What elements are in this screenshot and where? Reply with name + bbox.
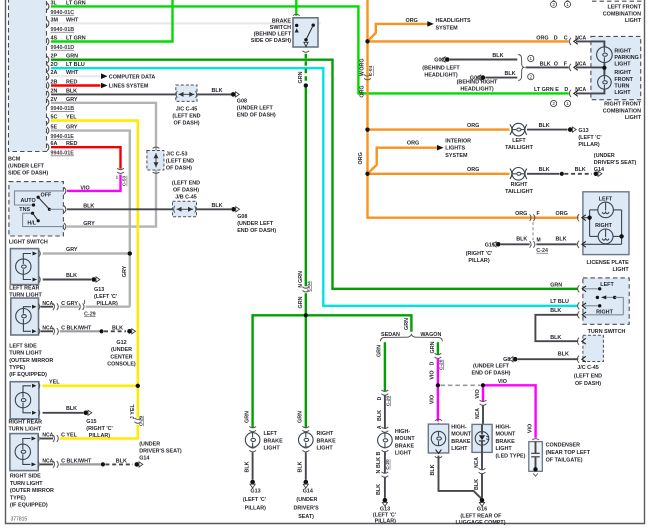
svg-text:CONSOLE): CONSOLE) <box>107 361 136 367</box>
junction dots overlay <box>365 39 369 43</box>
junction dot parking/turn <box>602 66 606 70</box>
svg-text:BCM: BCM <box>8 157 21 163</box>
svg-text:(LEFT END: (LEFT END <box>172 181 200 187</box>
svg-text:N BLK B: N BLK B <box>376 451 382 473</box>
wire 2A WHT to computer data lines <box>51 75 101 77</box>
svg-text:VIO: VIO <box>475 389 481 398</box>
svg-text:OFF: OFF <box>41 193 52 199</box>
svg-text:G14: G14 <box>303 489 313 495</box>
dashed link wagon to LED <box>440 384 480 386</box>
connector C-04 on ORG (W) <box>364 75 371 77</box>
svg-text:SWITCH: SWITCH <box>270 25 291 31</box>
svg-text:BLK: BLK <box>298 461 304 472</box>
svg-text:SIDE OF DASH): SIDE OF DASH) <box>8 171 48 177</box>
svg-text:C YEL: C YEL <box>61 433 77 439</box>
junction connector J/C C-45 (left end of dash) <box>176 85 197 101</box>
dashed BLK to G14 <box>564 173 592 175</box>
wire BLK wagon to G16 <box>439 456 483 500</box>
junction connector J/B C-45 (left end of dash) <box>173 201 197 217</box>
wire 3L LT GRN to right front turn light <box>51 6 569 93</box>
svg-text:LIGHT: LIGHT <box>451 446 468 452</box>
svg-text:9940-01C: 9940-01C <box>51 10 75 16</box>
svg-text:H/L: H/L <box>27 220 36 226</box>
svg-text:F: F <box>537 211 540 217</box>
svg-text:LINES SYSTEM: LINES SYSTEM <box>109 84 149 90</box>
left side turn light box <box>11 298 39 335</box>
wire ORG main vertical <box>368 0 579 218</box>
svg-text:COMPUTER DATA: COMPUTER DATA <box>109 74 156 80</box>
svg-text:N: N <box>298 284 304 288</box>
wire BLK LED to G16 <box>481 452 483 469</box>
svg-text:(IF EQUIPPED): (IF EQUIPPED) <box>9 372 47 378</box>
svg-text:C-29: C-29 <box>138 415 144 426</box>
svg-text:NCA: NCA <box>474 457 480 468</box>
svg-text:BRAKE: BRAKE <box>451 439 471 445</box>
svg-text:BRAKE: BRAKE <box>264 438 284 444</box>
junction dot license BLK <box>620 234 624 238</box>
circled 2 below box <box>551 100 557 106</box>
svg-text:LEFT: LEFT <box>264 431 278 437</box>
svg-text:G12: G12 <box>116 340 126 346</box>
svg-text:ORG: ORG <box>359 58 365 70</box>
svg-text:LEFT FRONT: LEFT FRONT <box>607 5 641 11</box>
ground G14 right brake <box>304 480 309 485</box>
wire C YEL right side turn light <box>40 438 53 440</box>
brake switch connector bottom <box>302 51 309 52</box>
svg-text:GRN: GRN <box>404 318 410 330</box>
svg-text:CENTER: CENTER <box>110 354 132 360</box>
svg-text:NCA,: NCA, <box>42 301 55 307</box>
condenser box <box>529 442 543 472</box>
sedan/wagon brace <box>380 334 442 341</box>
wire BLK sedan to bulb <box>384 395 386 429</box>
svg-text:1: 1 <box>530 56 533 61</box>
svg-text:C-24: C-24 <box>536 248 548 254</box>
wire BLK to right parking light <box>526 66 569 68</box>
svg-text:2: 2 <box>552 101 555 106</box>
svg-text:RIGHT: RIGHT <box>511 182 528 188</box>
svg-text:LIGHT: LIGHT <box>264 446 281 452</box>
svg-text:END OF DASH): END OF DASH) <box>237 228 276 234</box>
svg-text:(UNDER LEFT: (UNDER LEFT <box>237 106 274 112</box>
ground G16 (left rear of luggage compt) <box>480 498 485 503</box>
svg-text:LIGHTS: LIGHTS <box>445 146 465 152</box>
svg-text:BLK: BLK <box>66 273 77 279</box>
ground G13 (left C pillar) sedan <box>383 498 388 503</box>
wire GRN brake feed down <box>305 86 307 287</box>
svg-text:2: 2 <box>552 2 555 7</box>
svg-text:END OF DASH): END OF DASH) <box>237 113 276 119</box>
svg-text:(UNDER: (UNDER <box>139 442 160 448</box>
wire VIO to light switch <box>67 175 121 191</box>
circled 1 below box <box>564 100 570 106</box>
turn switch BLK entry <box>578 311 580 318</box>
wire C GRY with connector C-29 <box>41 306 54 308</box>
svg-text:D: D <box>554 35 558 41</box>
LED high-mount brake light box <box>472 424 492 452</box>
svg-text:OF DASH): OF DASH) <box>575 381 601 387</box>
svg-text:RIGHT: RIGHT <box>317 431 334 437</box>
svg-text:GRN: GRN <box>298 271 304 283</box>
condenser connector top <box>532 439 539 440</box>
svg-text:BLK: BLK <box>550 308 561 314</box>
BCM pin 4S (LT GRN) <box>47 38 49 45</box>
svg-text:BLK: BLK <box>550 335 561 341</box>
license plate light box <box>583 192 629 255</box>
svg-text:OF DASH): OF DASH) <box>173 188 199 194</box>
ground G14 (under drivers seat) taillight <box>594 172 599 177</box>
svg-text:(UNDER: (UNDER <box>296 497 317 503</box>
svg-text:J/C C-45: J/C C-45 <box>176 107 198 113</box>
wire 4S LT GRN to brake switch (via off-page top) <box>51 0 173 42</box>
svg-text:LT BLU: LT BLU <box>550 299 569 305</box>
svg-text:D: D <box>430 361 436 365</box>
svg-text:BLK: BLK <box>430 464 436 475</box>
svg-text:C BLK/WHT: C BLK/WHT <box>61 326 92 332</box>
brace joining G02/G03 <box>518 55 524 81</box>
svg-text:VIO: VIO <box>80 185 89 191</box>
svg-text:PILLAR): PILLAR) <box>375 518 396 524</box>
sedan high-mount brake light bulb <box>382 427 389 429</box>
svg-text:NCA: NCA <box>575 87 586 93</box>
wire 2V GRY to light switch <box>51 103 156 227</box>
BCM pin 3L (LT GRN) <box>47 3 49 10</box>
wire BLK sedan to G13 <box>384 477 386 498</box>
svg-text:G13: G13 <box>578 128 588 134</box>
svg-text:G13: G13 <box>250 489 260 495</box>
connector C-24 M on BLK <box>530 241 532 248</box>
ground G12 (under center console) <box>127 329 132 334</box>
svg-text:G08: G08 <box>237 214 247 220</box>
svg-text:SYSTEM: SYSTEM <box>436 25 459 31</box>
ground G08 (under left end of dash) <box>231 92 236 97</box>
svg-text:GRY: GRY <box>66 247 78 253</box>
wire BLK left rear turn light to G13 <box>43 279 92 281</box>
J/C C-45 entry top <box>577 338 579 345</box>
svg-text:(RIGHT 'C': (RIGHT 'C' <box>466 251 493 257</box>
BCM pin 5C (YEL) <box>47 117 49 124</box>
svg-text:LIGHT SWITCH: LIGHT SWITCH <box>9 240 48 246</box>
svg-text:SEAT): SEAT) <box>298 514 314 520</box>
svg-text:J: J <box>130 416 136 419</box>
right parking light bulb <box>597 47 613 63</box>
svg-text:LICENSE PLATE: LICENSE PLATE <box>587 260 630 266</box>
svg-text:G14: G14 <box>594 167 604 173</box>
wire LT GRN into brake switch from top <box>295 0 297 16</box>
svg-text:LIGHT: LIGHT <box>395 451 412 457</box>
condenser capacitor symbol <box>535 442 537 454</box>
connector housing dashed link <box>532 222 534 240</box>
right side turn light bulb <box>15 444 30 459</box>
svg-text:ORG: ORG <box>556 211 568 217</box>
svg-text:PILLAR): PILLAR) <box>468 258 489 264</box>
brake switch internals <box>295 24 298 27</box>
svg-text:9940-01B: 9940-01B <box>51 106 75 112</box>
wire VIO to condenser <box>483 385 536 437</box>
svg-text:BLK: BLK <box>474 479 480 490</box>
svg-text:BLK: BLK <box>558 352 569 358</box>
turn switch GRN entry <box>578 285 580 292</box>
svg-text:RIGHT: RIGHT <box>614 48 631 54</box>
svg-text:TURN SWITCH: TURN SWITCH <box>588 329 626 335</box>
junction dot YEL <box>136 384 140 388</box>
svg-text:LIGHT: LIGHT <box>614 90 631 96</box>
svg-text:PILLAR): PILLAR) <box>89 433 110 439</box>
junction dot GRY <box>128 251 132 255</box>
svg-text:TURN LIGHT: TURN LIGHT <box>9 351 42 357</box>
svg-text:HEADLIGHT): HEADLIGHT) <box>424 73 457 79</box>
svg-text:OF DASH): OF DASH) <box>173 121 199 127</box>
BCM pin 2V (GRY) <box>47 99 49 106</box>
svg-text:BRAKE: BRAKE <box>272 19 292 25</box>
BCM pin 2A (WHT) <box>47 73 49 80</box>
BCM pin 5E (GRY) <box>47 127 49 134</box>
right front combination light box <box>591 36 641 99</box>
circled 2 front <box>528 74 534 80</box>
svg-text:C BLK/WHT: C BLK/WHT <box>61 459 92 465</box>
BCM pin 6A (RED) <box>47 144 49 151</box>
svg-text:TAILLIGHT: TAILLIGHT <box>505 189 533 195</box>
connector C-20 wagon (D) <box>435 353 442 355</box>
svg-text:BLK: BLK <box>492 53 503 59</box>
wire BLK left brake to G13 <box>252 452 254 480</box>
svg-text:1: 1 <box>566 101 569 106</box>
svg-text:ORG: ORG <box>515 211 527 217</box>
svg-text:G08: G08 <box>237 99 247 105</box>
svg-text:ORG: ORG <box>536 35 548 41</box>
svg-text:RIGHT SIDE: RIGHT SIDE <box>10 474 41 480</box>
svg-text:BLK: BLK <box>539 123 550 129</box>
svg-text:VIO: VIO <box>430 370 436 379</box>
svg-text:ORG: ORG <box>406 18 418 24</box>
svg-text:C-04: C-04 <box>306 281 312 292</box>
wire 2N BLK to G08 <box>51 93 176 95</box>
connector C-29 on yellow vertical <box>134 418 141 420</box>
svg-text:YEL: YEL <box>130 404 136 415</box>
wire C BLK/WHT to G12 <box>41 330 54 332</box>
svg-text:LT GRN: LT GRN <box>534 87 554 93</box>
circled 1 front <box>528 55 534 61</box>
wire GRY left rear turn light <box>43 252 130 254</box>
wire BLK G8 to J/C C-45 <box>518 358 579 360</box>
svg-text:(IF EQUIPPED): (IF EQUIPPED) <box>10 503 48 509</box>
wire GRN to right brake light <box>305 315 307 428</box>
svg-text:BLK: BLK <box>112 326 123 332</box>
svg-text:NCA,: NCA, <box>42 459 55 465</box>
svg-text:CONDENSER: CONDENSER <box>546 443 581 449</box>
svg-text:DRIVER'S SEAT): DRIVER'S SEAT) <box>594 160 637 166</box>
svg-text:(UNDER LEFT: (UNDER LEFT <box>237 221 274 227</box>
BCM pin 3M (WHT) <box>47 20 49 27</box>
svg-text:BLK: BLK <box>377 410 383 421</box>
svg-text:MOUNT: MOUNT <box>395 436 415 442</box>
svg-text:FRONT: FRONT <box>614 77 633 83</box>
svg-text:COMBINATION: COMBINATION <box>603 108 641 114</box>
svg-text:BLK: BLK <box>212 203 223 209</box>
wire BLK sedan below bulb <box>384 452 386 474</box>
svg-text:OF TAILGATE): OF TAILGATE) <box>546 458 583 464</box>
svg-text:(OUTER MIRROR: (OUTER MIRROR <box>9 358 53 364</box>
svg-text:E: E <box>555 87 559 93</box>
svg-text:GRN: GRN <box>298 71 304 83</box>
svg-text:(LEFT 'C': (LEFT 'C' <box>243 497 266 503</box>
svg-text:DRIVER'S: DRIVER'S <box>293 506 319 512</box>
wire ORG to right taillight <box>368 173 510 175</box>
svg-text:HEADLIGHT): HEADLIGHT) <box>460 86 493 92</box>
wire BLK left taillight to G13 <box>527 129 568 131</box>
wagon high-mount brake light box <box>435 419 442 421</box>
turn switch LT BLU entry <box>578 302 580 309</box>
svg-text:SYSTEM: SYSTEM <box>445 153 468 159</box>
svg-text:(BEHIND LEFT: (BEHIND LEFT <box>422 66 460 72</box>
svg-text:INTERIOR: INTERIOR <box>445 139 471 145</box>
svg-text:VIO: VIO <box>527 424 533 433</box>
wire 2O LT BLU to turn switch RIGHT <box>51 68 578 306</box>
svg-text:G8: G8 <box>503 357 510 363</box>
svg-text:BLK: BLK <box>376 484 382 495</box>
svg-text:VIO: VIO <box>498 379 507 385</box>
wire GRN to sedan/wagon split <box>306 315 412 332</box>
junction dot license ORG <box>588 216 592 220</box>
BCM pin 2P (GRN) <box>47 56 49 63</box>
left rear turn light bulb <box>16 259 31 274</box>
svg-text:(RIGHT 'C': (RIGHT 'C' <box>86 426 113 432</box>
svg-text:TNS: TNS <box>19 207 30 213</box>
left taillight bulb <box>510 124 512 134</box>
light switch internals <box>15 191 64 205</box>
svg-text:TAILLIGHT: TAILLIGHT <box>505 145 533 151</box>
svg-text:LIGHT: LIGHT <box>496 446 513 452</box>
entry BLK row <box>569 64 571 71</box>
wire 5E GRY down to left turn lights <box>51 131 130 307</box>
svg-text:J/B C-45: J/B C-45 <box>175 195 197 201</box>
right rear turn light bulb <box>15 392 30 407</box>
svg-text:ORG: ORG <box>358 152 364 164</box>
svg-text:LEFT SIDE: LEFT SIDE <box>9 343 37 349</box>
wire YEL right rear turn light <box>43 384 138 387</box>
wire BLK right taillight <box>527 173 559 175</box>
svg-text:C GRY: C GRY <box>61 301 78 307</box>
junction dot BLK right taillight <box>560 172 564 176</box>
svg-text:SIDE OF DASH): SIDE OF DASH) <box>251 38 291 44</box>
svg-text:377815: 377815 <box>11 517 28 523</box>
wire VIO wagon <box>437 359 439 386</box>
connector C-24 F on ORG <box>530 214 532 221</box>
wire 2P GRN to turn switch LEFT <box>51 60 578 289</box>
svg-text:BLK: BLK <box>212 88 223 94</box>
svg-text:G16: G16 <box>477 507 487 513</box>
connector C-04 on GRN (N) <box>302 287 309 289</box>
connector NCA LED top <box>480 400 487 402</box>
wire GRN dashed from brake switch <box>305 54 307 84</box>
svg-text:BRAKE: BRAKE <box>395 443 415 449</box>
svg-text:TYPE): TYPE) <box>10 495 26 501</box>
svg-text:BLK: BLK <box>83 204 94 210</box>
inline connector C-53 red to violet <box>117 168 124 170</box>
svg-text:BLK: BLK <box>66 406 77 412</box>
svg-text:TURN LIGHT: TURN LIGHT <box>10 481 43 487</box>
wire ORG branch to interior lights system <box>368 148 438 174</box>
svg-text:BRAKE: BRAKE <box>317 438 337 444</box>
svg-text:9940-01E: 9940-01E <box>51 134 75 140</box>
license plate internal wiring <box>589 210 591 237</box>
svg-text:ORG: ORG <box>407 141 419 147</box>
wire 3M WHT <box>51 22 321 24</box>
svg-text:BLK: BLK <box>539 167 550 173</box>
svg-text:PARKING: PARKING <box>614 55 638 61</box>
junction dot VIO LED <box>481 383 485 387</box>
entry ORG row <box>569 38 571 45</box>
wire ORG branch to headlights system <box>368 24 428 42</box>
wire BLK G02 <box>450 59 518 61</box>
wire GRN sedan branch <box>384 342 386 391</box>
svg-text:O: O <box>554 61 558 67</box>
left front combination light stubs <box>553 0 555 1</box>
wire C BLK/WHT to G14 <box>40 463 53 465</box>
light switch box <box>9 182 64 236</box>
wire 6A RED to connector C-53 <box>51 147 121 169</box>
wire GRN to left brake light <box>253 315 306 428</box>
svg-text:9940-01D: 9940-01D <box>51 45 75 51</box>
svg-text:LEFT: LEFT <box>599 196 613 202</box>
circled 1 top <box>564 1 570 7</box>
svg-text:W: W <box>359 71 365 76</box>
svg-text:LIGHT: LIGHT <box>613 267 630 273</box>
wire light switch BLK to G08 <box>67 208 172 210</box>
svg-text:PILLAR): PILLAR) <box>245 506 266 512</box>
svg-text:(LEFT END: (LEFT END <box>172 114 200 120</box>
svg-text:G13: G13 <box>380 507 390 513</box>
svg-text:BLK: BLK <box>116 459 127 465</box>
svg-text:C-20: C-20 <box>385 459 391 470</box>
svg-text:J/C C-53: J/C C-53 <box>166 151 188 157</box>
junction dot ORG right taillight <box>365 172 369 176</box>
wire ORG to left taillight <box>368 128 510 130</box>
connector C-20 sedan (D) <box>382 390 389 392</box>
svg-text:(LEFT END: (LEFT END <box>166 158 194 164</box>
svg-text:PILLAR): PILLAR) <box>578 142 599 148</box>
svg-text:LIGHT: LIGHT <box>625 18 642 24</box>
junction connector J/C C-53 (left end of dash) <box>147 151 164 171</box>
turn switch internal arm <box>596 296 599 299</box>
svg-text:GRY: GRY <box>83 221 95 227</box>
svg-text:RIGHT REAR: RIGHT REAR <box>9 420 43 426</box>
license plate RIGHT bulb <box>598 229 613 244</box>
svg-text:BLK: BLK <box>575 167 586 173</box>
license plate LEFT bulb <box>598 202 614 218</box>
ground G08 #2 (under left end of dash) <box>231 207 236 212</box>
svg-text:GRY: GRY <box>122 265 128 277</box>
svg-text:LIGHT: LIGHT <box>614 62 631 68</box>
svg-text:(OUTER MIRROR: (OUTER MIRROR <box>10 488 54 494</box>
svg-text:COMBINATION: COMBINATION <box>603 11 641 17</box>
svg-text:DRIVER'S SEAT): DRIVER'S SEAT) <box>139 449 182 455</box>
svg-text:TURN: TURN <box>614 84 629 90</box>
wire BLK turn switch to J/C C-45 <box>535 315 578 341</box>
svg-text:G14: G14 <box>139 456 149 462</box>
svg-text:BRAKE: BRAKE <box>496 439 516 445</box>
svg-text:J/C C-45: J/C C-45 <box>577 365 599 371</box>
svg-text:(LEFT END: (LEFT END <box>574 373 602 379</box>
svg-text:ORG: ORG <box>467 123 479 129</box>
wire 2B RED to computer data lines <box>51 84 101 86</box>
wire BLK right brake to G14 <box>305 452 307 480</box>
light switch pin brackets <box>64 187 66 194</box>
wire VIO wagon to bulb <box>437 385 439 421</box>
svg-text:END OF DASH): END OF DASH) <box>472 371 511 377</box>
ground G14 (under drivers seat) <box>135 462 140 467</box>
right front turn light bulb <box>598 76 612 90</box>
